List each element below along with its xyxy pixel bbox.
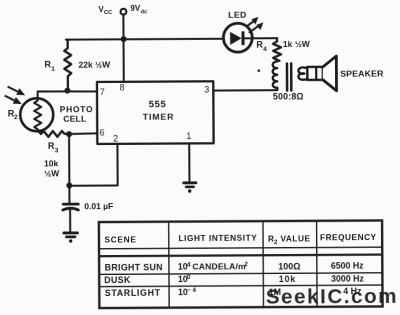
svg-text:2: 2 — [244, 261, 248, 268]
resistor R4 — [273, 38, 281, 61]
svg-text:LIGHT INTENSITY: LIGHT INTENSITY — [178, 233, 257, 243]
svg-text:10k: 10k — [44, 158, 59, 168]
svg-text:SPEAKER: SPEAKER — [340, 69, 384, 79]
svg-text:4: 4 — [263, 46, 267, 53]
svg-text:10k: 10k — [279, 274, 296, 284]
photocell R2 — [20, 98, 53, 131]
svg-text:FREQUENCY: FREQUENCY — [320, 232, 377, 242]
transformer T1 secondary winding — [298, 67, 307, 79]
wire pin 2 to cap junction — [69, 144, 118, 186]
svg-text:3000 Hz: 3000 Hz — [331, 274, 364, 284]
node junction R1 / photocell / pin7 — [64, 88, 70, 94]
scan dot artifact — [257, 69, 260, 72]
wire pin 1 to ground — [188, 143, 190, 181]
svg-text:0: 0 — [187, 274, 191, 281]
svg-text:dc: dc — [141, 9, 148, 15]
speaker LS1 — [307, 67, 323, 80]
svg-text:6500 Hz: 6500 Hz — [331, 261, 364, 271]
svg-text:2: 2 — [14, 114, 18, 121]
wire Vcc terminal to pin 8 — [122, 15, 124, 82]
svg-text:2: 2 — [113, 133, 118, 143]
svg-text:SeekIC.com: SeekIC.com — [266, 285, 398, 309]
transformer T1 primary winding — [273, 62, 278, 90]
svg-text:CANDELA/m: CANDELA/m — [192, 261, 246, 271]
photocell light arrows — [5, 87, 26, 105]
capacitor C1 0.01uF — [63, 203, 78, 206]
svg-text:1k ½W: 1k ½W — [283, 39, 311, 49]
resistor R1 — [64, 40, 71, 91]
svg-text:7: 7 — [100, 87, 105, 97]
op-amp U1 555 timer box — [97, 81, 214, 144]
svg-text:1: 1 — [51, 66, 55, 73]
node junction cap / pin2 — [66, 183, 72, 189]
wire top supply rail — [66, 38, 223, 41]
svg-text:SCENE: SCENE — [104, 235, 136, 245]
wire junction down to cap node — [68, 134, 70, 203]
wire junction to pin 6 — [69, 132, 97, 135]
svg-text:TIMER: TIMER — [143, 112, 175, 122]
svg-text:CC: CC — [104, 10, 113, 16]
resistor R3 — [41, 131, 69, 137]
svg-text:½W: ½W — [44, 168, 60, 178]
svg-text:BRIGHT SUN: BRIGHT SUN — [105, 262, 163, 272]
svg-text:CELL: CELL — [63, 114, 86, 124]
wire pin 3 to transformer — [213, 88, 277, 91]
node junction R3 / pin6 / C1 — [66, 131, 72, 137]
node junction Vcc rail — [121, 36, 127, 42]
svg-text:500:8Ω: 500:8Ω — [273, 92, 304, 102]
LED emission arrows — [247, 21, 254, 26]
svg-text:8: 8 — [120, 82, 125, 92]
svg-text:0.01 µF: 0.01 µF — [84, 201, 113, 211]
svg-text:100Ω: 100Ω — [278, 261, 300, 271]
svg-text:3: 3 — [204, 85, 209, 95]
transformer T1 core — [286, 63, 289, 90]
svg-text:3: 3 — [55, 147, 59, 154]
svg-text:555: 555 — [149, 99, 167, 110]
svg-text:STARLIGHT: STARLIGHT — [105, 288, 161, 298]
wire photocell top to pin 7 — [38, 91, 97, 98]
svg-text:22k ½W: 22k ½W — [78, 60, 111, 70]
svg-text:DUSK: DUSK — [104, 275, 131, 285]
svg-text:VALUE: VALUE — [280, 233, 310, 243]
table of scene/intensity/R2/frequency — [99, 220, 383, 308]
svg-text:− 4: − 4 — [187, 287, 196, 294]
svg-text:4: 4 — [187, 262, 191, 269]
node Vcc terminal — [121, 9, 127, 15]
svg-text:LED: LED — [228, 10, 247, 20]
svg-text:6: 6 — [100, 127, 105, 137]
wire photocell bottom lead — [38, 131, 41, 134]
ground pin 1 — [184, 181, 196, 184]
svg-text:9V: 9V — [130, 4, 141, 13]
svg-text:1: 1 — [186, 131, 191, 141]
ground below capacitor — [64, 231, 77, 234]
LED D1 — [223, 23, 252, 52]
